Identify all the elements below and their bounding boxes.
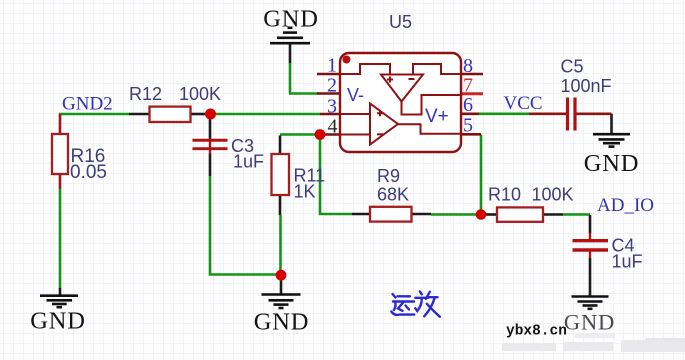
svg-text:100K: 100K <box>179 84 221 104</box>
svg-text:1: 1 <box>327 55 337 77</box>
svg-text:1uF: 1uF <box>233 152 264 172</box>
svg-text:GND: GND <box>584 150 639 177</box>
svg-text:68K: 68K <box>377 185 409 205</box>
svg-text:0.05: 0.05 <box>70 162 107 183</box>
svg-text:3: 3 <box>327 96 337 118</box>
svg-text:C5: C5 <box>561 57 584 77</box>
svg-text:100nF: 100nF <box>561 76 612 96</box>
svg-text:U5: U5 <box>389 12 412 32</box>
svg-text:4: 4 <box>328 116 338 138</box>
svg-text:GND: GND <box>263 6 318 33</box>
svg-text:100K: 100K <box>532 185 574 205</box>
svg-text:AD_IO: AD_IO <box>597 195 654 216</box>
svg-text:5: 5 <box>463 115 473 137</box>
svg-text:V+: V+ <box>425 106 449 127</box>
svg-text:GND: GND <box>564 310 615 335</box>
svg-text:R9: R9 <box>377 166 400 186</box>
svg-text:GND: GND <box>30 308 85 335</box>
svg-text:R12: R12 <box>129 84 162 104</box>
svg-text:2: 2 <box>327 75 337 97</box>
svg-text:6: 6 <box>463 94 473 116</box>
svg-text:GND: GND <box>254 309 309 336</box>
svg-text:GND2: GND2 <box>62 93 113 114</box>
svg-text:R10: R10 <box>488 185 521 205</box>
svg-text:ybx8.cn: ybx8.cn <box>506 323 567 339</box>
svg-text:V-: V- <box>347 85 364 105</box>
svg-text:VCC: VCC <box>504 93 543 114</box>
svg-text:1K: 1K <box>294 182 316 202</box>
svg-text:1uF: 1uF <box>612 252 643 272</box>
